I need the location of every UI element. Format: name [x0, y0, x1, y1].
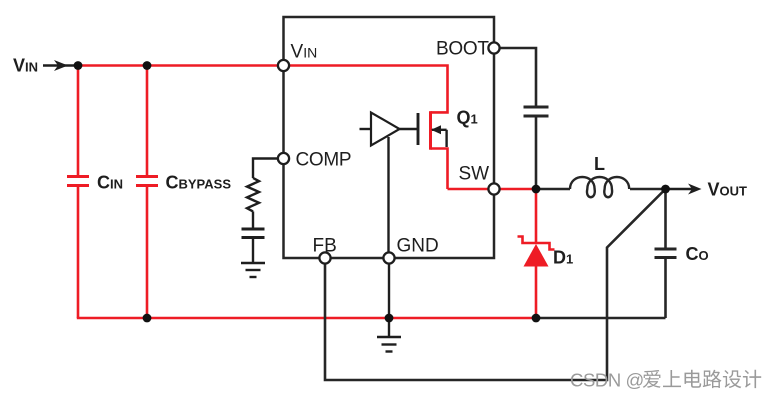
- gate driver amplifier: [371, 113, 400, 146]
- inductor L: [570, 177, 629, 197]
- pin FB of U1: [319, 252, 330, 263]
- wire feedback VOUT to FB: [325, 189, 666, 380]
- wire COMP pin lead: [253, 159, 279, 179]
- wire inductor to VOUT node: [630, 188, 666, 191]
- svg-text:VIN: VIN: [291, 42, 318, 63]
- junction D1 rail: [532, 314, 541, 323]
- transistor Q1: [429, 111, 432, 150]
- capacitor CBOOT: [524, 106, 549, 109]
- svg-text:FB: FB: [313, 236, 337, 257]
- wire VOUT lead: [666, 188, 698, 190]
- capacitor CIN: [77, 66, 80, 177]
- resistor R comp: [247, 178, 259, 211]
- VOUT arrowhead: [688, 184, 702, 195]
- junction CBYPASS bottom: [143, 314, 152, 323]
- junction VIN/CIN: [74, 61, 83, 70]
- ground comp network: [241, 262, 265, 264]
- svg-text:SW: SW: [459, 164, 490, 185]
- pin GND of U1: [383, 252, 394, 263]
- diode D1 schottky: [535, 189, 538, 244]
- capacitor C comp: [252, 211, 254, 229]
- svg-text:L: L: [594, 154, 605, 174]
- svg-text:COMP: COMP: [296, 150, 352, 171]
- wire red ground return rail: [77, 317, 536, 320]
- wire driver to GND pin: [387, 137, 389, 258]
- capacitor CBYPASS: [146, 66, 149, 177]
- junction VOUT node: [661, 185, 670, 194]
- svg-text:CSDN @: CSDN @: [570, 370, 644, 391]
- svg-text:GND: GND: [397, 236, 439, 257]
- pin BOOT of U1: [488, 42, 499, 53]
- VIN input arrowhead: [54, 60, 68, 71]
- wire VIN input lead: [43, 64, 78, 66]
- junction SW/CBOOT/D1: [532, 185, 541, 194]
- ground power: [388, 318, 390, 337]
- wire red Q1 source to SW node: [448, 188, 537, 191]
- pin VIN of U1: [278, 60, 289, 71]
- wire black rail to Co: [536, 317, 666, 320]
- svg-text:BOOT: BOOT: [436, 39, 489, 60]
- wire GND pin to rail: [388, 258, 390, 318]
- wire BOOT pin to CBOOT: [494, 48, 536, 107]
- wire SW node to inductor: [536, 188, 570, 191]
- op-amp U1 regulator IC body: [284, 17, 495, 258]
- pin COMP of U1: [278, 153, 289, 164]
- wire red VIN pin to Q1 drain: [284, 66, 448, 113]
- pin SW of U1: [488, 183, 499, 194]
- capacitor Co: [664, 189, 667, 249]
- junction CBYPASS top: [143, 61, 152, 70]
- junction GND rail: [385, 314, 394, 323]
- wire red VIN rail to pin: [78, 64, 284, 67]
- wire driver input stub: [360, 128, 372, 130]
